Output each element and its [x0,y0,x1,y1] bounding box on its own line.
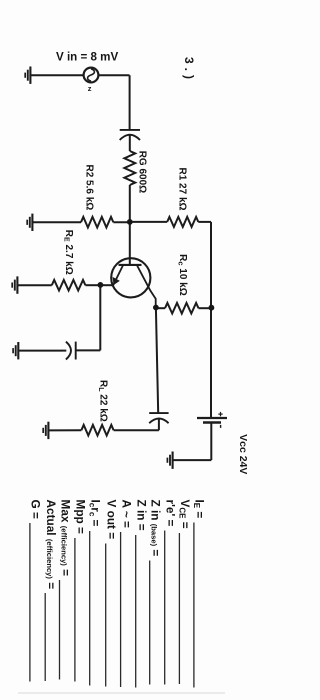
svg-text:G =: G = [29,500,43,519]
Vcc rail down [210,222,212,418]
svg-text:IE =: IE = [192,500,207,519]
svg-text:z: z [88,84,92,93]
wire R2 to base node [113,221,130,223]
node label Zin(base) [149,500,163,685]
ground (bypass cap) [13,342,18,359]
faint scan smudge bottom [18,692,225,694]
svg-text:3.): 3.) [182,57,196,83]
wire RE to emitter node [85,284,100,286]
svg-text:R1 27 kΩ: R1 27 kΩ [177,168,188,211]
node Vcc rail junction [209,305,215,311]
wire emitter to node [100,284,113,286]
wire collector node to Rc [156,307,165,309]
wire C-out to RL [114,429,159,431]
transistor Q1 [111,258,155,308]
ground (RL) [43,422,48,439]
svg-text:RE 2.7 kΩ: RE 2.7 kΩ [63,230,75,275]
wire ground to bypass cap [19,350,62,352]
wire emitter node down [99,285,101,350]
svg-text:r'e' =: r'e' = [164,500,178,527]
node label Actual [44,500,58,682]
resistor RC 10 k [165,303,199,314]
wire battery down [210,423,212,461]
node label Vout [105,500,119,687]
wire base node to R1 [130,221,167,223]
svg-text:Vcc 24V: Vcc 24V [237,434,249,474]
AC source V in = 8 mV [84,68,99,83]
ground (input source) [25,67,30,84]
svg-text:V in = 8 mV: V in = 8 mV [56,51,118,64]
node label Mpp [74,500,88,682]
wire RG to base node [129,185,131,222]
ground (RE) [12,276,17,293]
node collector junction [153,305,159,311]
svg-text:RL 22 kΩ: RL 22 kΩ [97,380,109,422]
wire down-corner to bypass cap [76,349,101,351]
battery Vcc plates [197,412,227,428]
node label G [29,500,43,682]
wire collector node down to C-out [156,308,158,413]
resistor R1 27 k [167,217,198,227]
wire ground to Vin source [31,74,84,76]
resistor RG 600 ohm [124,151,135,185]
wire source to corner [98,74,129,76]
node label VCE [177,500,192,685]
node label Max [58,500,72,680]
svg-text:RG 600Ω: RG 600Ω [136,151,147,193]
node label A~ [119,500,133,688]
capacitor C-out [149,413,168,430]
node emitter junction [98,282,104,288]
capacitor C-in (coupling) [120,130,140,151]
node label IE [192,500,207,688]
node label Zin [135,500,149,688]
wire corner down to capacitor [129,75,131,130]
svg-text:A ~ =: A ~ = [119,500,133,529]
node base junction [127,219,133,225]
wire base lead [129,222,131,265]
svg-text:V out =: V out = [105,500,119,540]
wire ground to R2 [33,221,81,223]
ground (battery) [167,452,172,469]
svg-text:Z in =: Z in = [135,500,149,531]
wire battery to ground [173,459,211,461]
ground (R2) [27,214,32,231]
node label Icrc [88,500,103,686]
capacitor C-bypass [61,342,76,360]
svg-text:Rc 10 kΩ: Rc 10 kΩ [177,254,189,296]
wire RL to ground [49,429,82,431]
resistor R2 5.6 k [81,217,113,228]
node label r'e' [164,500,178,685]
wire R1 to Vcc rail corner [198,221,211,223]
svg-text:R2 5.6 kΩ: R2 5.6 kΩ [84,165,95,211]
wire Rc to Vcc rail [199,307,212,309]
wire ground to RE [18,284,52,286]
resistor RL 22 k [81,425,113,436]
resistor RE 2.7 k [52,280,86,291]
svg-text:Mpp =: Mpp = [74,500,88,535]
